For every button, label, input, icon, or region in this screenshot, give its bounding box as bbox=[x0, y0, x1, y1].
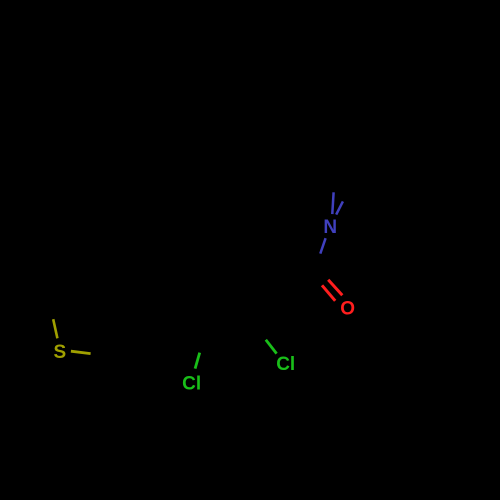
svg-text:N: N bbox=[323, 217, 337, 238]
wire: C–Cl bond right (Cl half) bbox=[266, 340, 277, 354]
wire: C–Cl bond left (Cl half) bbox=[195, 353, 200, 369]
wire: thiophene S–C bond upper-left (S half) bbox=[53, 319, 57, 338]
wire: N=C double bond line 2 (N half) bbox=[336, 201, 343, 214]
wire: N–C(=O) bond (N half) bbox=[320, 238, 325, 253]
svg-text:Cl: Cl bbox=[276, 354, 295, 375]
svg-text:O: O bbox=[340, 299, 355, 320]
wire: C=O double bond line 2 (O half) bbox=[328, 280, 342, 296]
wire: N=C double bond line 1 (N half) bbox=[332, 192, 333, 214]
svg-text:Cl: Cl bbox=[182, 374, 201, 395]
wire: C=O double bond line 1 (O half) bbox=[322, 285, 335, 301]
wire: thiophene S–C bond right (S half) bbox=[71, 351, 91, 353]
svg-text:S: S bbox=[54, 342, 67, 363]
